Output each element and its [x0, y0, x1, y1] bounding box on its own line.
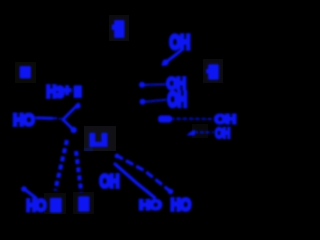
hashed wedge A (down-left chain): [55, 140, 67, 191]
label H3+N (ammonium group): [46, 82, 82, 101]
svg-text:OH: OH: [215, 124, 230, 141]
label H (center stereo H): [89, 133, 107, 147]
label OH (right mid upper): [167, 75, 186, 94]
atom O1 (top solid label block): [112, 20, 125, 38]
svg-text:HO: HO: [26, 197, 46, 214]
svg-text:OH: OH: [168, 87, 187, 111]
label HO (left): [13, 111, 34, 129]
label OH (lower right): [215, 124, 230, 141]
atom O2 (left solid label block): [20, 66, 32, 79]
bond to HO (bottom center-right): [115, 164, 155, 198]
hashed arrow bond to OH (lower right): [186, 129, 213, 135]
svg-text:HO: HO: [139, 198, 161, 213]
wedge bond (right mid upper): [139, 82, 166, 88]
wedge bond into HO (bottom left): [21, 186, 36, 198]
label HO (bottom right): [171, 196, 191, 215]
svg-text:+: +: [63, 82, 71, 99]
label HO (bottom left): [26, 197, 46, 216]
hashed wedge B (down chain): [76, 151, 81, 193]
jpeg artifact halos: [15, 15, 223, 214]
label HO (bottom center): [139, 198, 161, 213]
label H (bottom mid, solid block): [78, 196, 90, 211]
svg-text:OH: OH: [100, 172, 120, 192]
label H (bottom, solid block): [50, 198, 62, 213]
bond wedge to OH (top right): [162, 51, 180, 66]
bond with wedge to OH (right): [158, 115, 212, 122]
atom O3 (right solid label block): [206, 64, 219, 79]
bond C2 to C3 vertex: [63, 120, 77, 134]
svg-text:HO: HO: [171, 196, 191, 214]
svg-text:H: H: [46, 83, 56, 102]
label OH (right): [215, 111, 237, 126]
bond N to C2 vertex: [63, 103, 81, 119]
hashed bond HO to C2: [37, 117, 62, 120]
label OH (top right): [170, 30, 190, 53]
faint artifact smear left of H: [84, 148, 93, 151]
label OH (right mid lower): [168, 87, 187, 111]
dashed bond to HO (bottom right): [115, 154, 174, 195]
label OH (center bottom): [100, 172, 120, 192]
wedge bond (right mid lower): [140, 99, 166, 105]
svg-text:HO: HO: [13, 111, 34, 129]
